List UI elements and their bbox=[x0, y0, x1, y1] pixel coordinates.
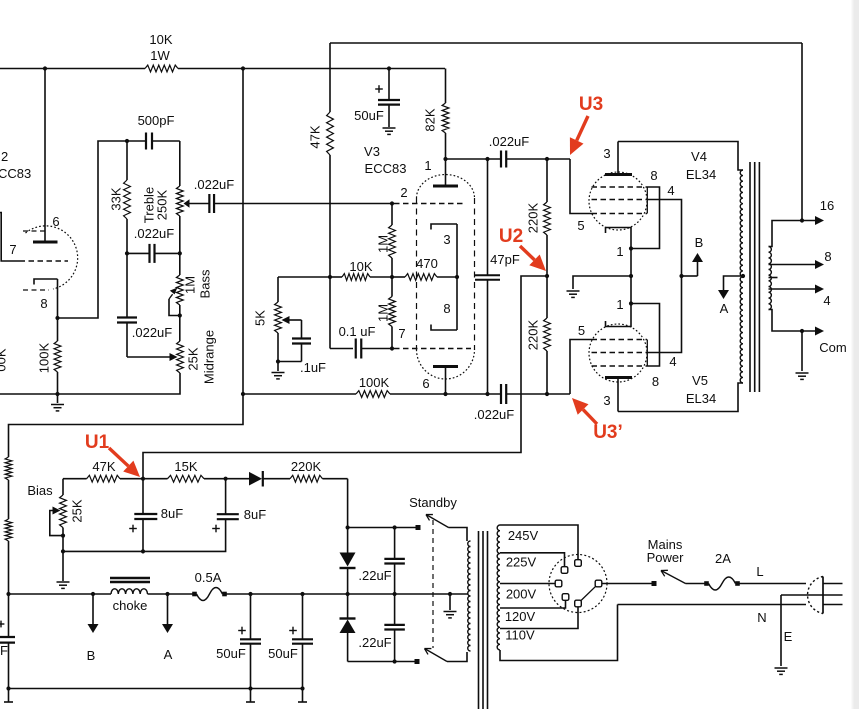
wire Com ground drop bbox=[801, 331, 803, 371]
svg-text:2A: 2A bbox=[715, 551, 731, 566]
label L bbox=[756, 564, 763, 579]
label Standby bbox=[409, 495, 457, 510]
capacitor .1uF (5K bypass) bbox=[292, 320, 311, 362]
fuse 2A bbox=[704, 577, 740, 590]
node OPT center tap bbox=[741, 274, 745, 278]
svg-text:225V: 225V bbox=[506, 555, 537, 570]
label + (50uF second) bbox=[289, 627, 297, 635]
label Com bbox=[819, 340, 846, 355]
label edge cap fragment bbox=[0, 643, 8, 658]
label + (edge cap) bbox=[0, 621, 4, 628]
wire 5K top bbox=[277, 277, 279, 302]
label 8 ohm bbox=[824, 249, 831, 264]
svg-text:220K: 220K bbox=[291, 459, 322, 474]
resistor 10K (V3) bbox=[330, 274, 392, 281]
chassis stub right bbox=[298, 689, 307, 703]
label pin 8 V4 bbox=[650, 168, 657, 183]
label edge fragment 500K bbox=[0, 348, 9, 371]
tube V4 grid cage right edge bbox=[646, 187, 648, 214]
arrow A supply bbox=[718, 289, 729, 299]
label .022uF (treble out) bbox=[194, 177, 235, 192]
wire 47K to U1 node bbox=[120, 478, 143, 480]
standby switch lower contact bbox=[415, 659, 420, 664]
wire pin6 rail left bbox=[243, 393, 356, 395]
tube V5 grid cage right edge bbox=[646, 340, 648, 367]
tube V5 cathode hook bbox=[606, 304, 632, 327]
label pin 2 V3 bbox=[400, 185, 407, 200]
wire bias row left bbox=[63, 478, 87, 480]
chassis stub left bbox=[4, 689, 13, 703]
arrow 4 ohm bbox=[815, 285, 824, 294]
svg-text:47K: 47K bbox=[308, 125, 323, 148]
label pin 5 V5 bbox=[578, 323, 585, 338]
label .022uF upper bbox=[489, 134, 530, 149]
svg-text:10K: 10K bbox=[149, 32, 172, 47]
node screen bus bbox=[679, 274, 683, 278]
node 50uF2 top bbox=[300, 592, 304, 596]
wire bias to tie rail bbox=[62, 536, 64, 552]
label pin 1 V5 bbox=[616, 297, 623, 312]
svg-text:B: B bbox=[87, 648, 96, 663]
node rail left bbox=[6, 592, 10, 596]
wire center tap to A bbox=[724, 276, 744, 289]
wire Com tap bbox=[769, 310, 816, 332]
node 50uF1 top bbox=[248, 592, 252, 596]
label Midrange bbox=[202, 330, 217, 384]
capacitor 50uF second bbox=[292, 594, 313, 689]
ground (earth) bbox=[775, 668, 788, 674]
wire V2 cathode down bbox=[57, 279, 59, 318]
standby gang link (dashed) bbox=[432, 520, 434, 648]
svg-text:.22uF: .22uF bbox=[358, 568, 391, 583]
svg-text:U1: U1 bbox=[85, 432, 110, 453]
wire 245V tap bbox=[500, 525, 578, 560]
svg-text:ECC83: ECC83 bbox=[365, 161, 407, 176]
svg-text:7: 7 bbox=[9, 242, 16, 257]
resistor 47K (feedback) bbox=[327, 112, 334, 155]
svg-text:245V: 245V bbox=[508, 528, 539, 543]
tube V4 grid g1 (dashed) bbox=[592, 213, 648, 215]
label + (50uF first) bbox=[238, 627, 246, 635]
label 1M lower bbox=[376, 304, 391, 322]
label 470 bbox=[416, 256, 438, 271]
svg-text:110V: 110V bbox=[505, 628, 535, 643]
label 25K (midrange) bbox=[186, 347, 201, 370]
tube V3 lower grid (dashed) bbox=[394, 348, 471, 350]
tube V5 grid g1 (dashed) bbox=[592, 339, 648, 341]
wire V5 g3 tie bbox=[631, 304, 660, 367]
svg-text:16: 16 bbox=[820, 198, 834, 213]
ground (50uF) bbox=[383, 128, 396, 134]
node bottom rail 50uF1 bbox=[248, 686, 252, 690]
svg-text:470: 470 bbox=[416, 256, 438, 271]
red label U3 bbox=[579, 94, 603, 115]
svg-text:8: 8 bbox=[652, 374, 659, 389]
label 220K upper bbox=[526, 202, 541, 233]
wire 5K bottom tie bbox=[278, 361, 302, 363]
tube V3 envelope top arc bbox=[417, 175, 475, 198]
svg-text:0.5A: 0.5A bbox=[195, 570, 222, 585]
node standby top node bbox=[346, 525, 350, 529]
label .022uF (bass) bbox=[132, 325, 173, 340]
standby switch lower lever bbox=[425, 649, 448, 662]
ground (Com) bbox=[796, 373, 809, 379]
wire N line bbox=[618, 604, 807, 606]
wire switch to fuse bbox=[686, 583, 707, 585]
PT mains winding bbox=[497, 525, 500, 650]
svg-text:1: 1 bbox=[424, 158, 431, 173]
label 47K (bias) bbox=[92, 459, 115, 474]
label pin 6 of V2 bbox=[52, 214, 59, 229]
svg-text:6: 6 bbox=[52, 214, 59, 229]
label pin 4 V5 bbox=[669, 354, 676, 369]
label Mains bbox=[648, 537, 683, 552]
svg-text:U2: U2 bbox=[499, 226, 523, 247]
node bass wiper tie bbox=[178, 313, 182, 317]
wire pin1 rail bbox=[446, 158, 571, 160]
voltage selector body bbox=[549, 555, 607, 613]
label A supply bbox=[720, 301, 729, 316]
label + (8uF first) bbox=[129, 525, 137, 533]
tube V2 grid (dashed) bbox=[20, 260, 69, 262]
label ECC83 bbox=[365, 161, 407, 176]
mains switch contact bbox=[652, 581, 657, 586]
svg-text:choke: choke bbox=[113, 598, 148, 613]
label A out bbox=[164, 647, 173, 662]
bias wiper arrow bbox=[50, 507, 63, 536]
node 47pF bottom bbox=[485, 392, 489, 396]
potentiometer Midrange 25K bbox=[177, 341, 184, 373]
arrow Com bbox=[815, 327, 824, 336]
node HT center tap ground bbox=[448, 592, 452, 596]
tube V3 upper plate bbox=[433, 159, 458, 186]
svg-text:3: 3 bbox=[603, 146, 610, 161]
svg-text:8: 8 bbox=[824, 249, 831, 264]
svg-text:0.1 uF: 0.1 uF bbox=[339, 324, 376, 339]
node V3 pin6 node bbox=[443, 392, 447, 396]
node mid tone stack left bbox=[125, 251, 129, 255]
label 8uF first bbox=[161, 506, 183, 521]
wire main rail bbox=[9, 593, 469, 595]
label .22uF lower bbox=[358, 635, 391, 650]
node V3 pin2 node bbox=[390, 201, 394, 205]
node V3 pin7 node bbox=[390, 346, 394, 350]
wire V4 g3 tie bbox=[631, 187, 660, 249]
label 47K (feedback) bbox=[308, 125, 323, 148]
wire 225V tap bbox=[500, 553, 565, 567]
tube V4 EL34 envelope bbox=[589, 172, 647, 230]
tube V5 EL34 envelope bbox=[589, 324, 647, 382]
node junction on B+ rail at V3 feed bbox=[241, 66, 245, 70]
wire midrange bottom bbox=[58, 373, 181, 394]
svg-text:50uF: 50uF bbox=[354, 108, 384, 123]
svg-text:8: 8 bbox=[443, 301, 450, 316]
selector rotor bbox=[581, 586, 596, 601]
wire 110V tap bbox=[500, 607, 578, 629]
capacitor .022uF (slope) bbox=[127, 244, 180, 263]
svg-text:A: A bbox=[720, 301, 729, 316]
label E bbox=[784, 629, 793, 644]
arrow B out bbox=[88, 594, 99, 633]
wire 5K feed bbox=[278, 276, 330, 278]
wire V4 plate to OPT bbox=[618, 142, 743, 171]
wire ground stub bbox=[57, 394, 59, 403]
node bias wiper tie bbox=[61, 534, 65, 538]
label pin 3 V3 bbox=[443, 232, 450, 247]
wire to V3 grid pin 2 bbox=[214, 203, 392, 205]
label .1uF bbox=[300, 360, 326, 375]
node feedback node bbox=[328, 275, 332, 279]
svg-text:7: 7 bbox=[398, 326, 405, 341]
wire pin6 rail right bbox=[390, 393, 570, 395]
label Treble bbox=[142, 187, 157, 223]
red label U1 bbox=[85, 432, 110, 453]
svg-text:82K: 82K bbox=[423, 108, 438, 131]
wire 220K drop bbox=[347, 479, 349, 528]
resistor 100K (V2 cathode) bbox=[54, 341, 61, 372]
label 2A bbox=[715, 551, 731, 566]
capacitor 8uF second bbox=[217, 479, 239, 520]
svg-text:Midrange: Midrange bbox=[202, 330, 217, 384]
svg-text:U3’: U3’ bbox=[593, 422, 623, 443]
capacitor 500pF bbox=[127, 133, 180, 150]
resistor 220K upper bbox=[544, 202, 551, 235]
label 200V bbox=[506, 587, 537, 602]
label pin 1 V3 bbox=[424, 158, 431, 173]
resistor dropper upper bbox=[5, 457, 12, 480]
capacitor .022uF (treble out) bbox=[209, 194, 214, 213]
node cathode bus top bbox=[629, 246, 633, 250]
svg-text:V5: V5 bbox=[692, 373, 708, 388]
svg-text:V3: V3 bbox=[364, 144, 380, 159]
wire L line bbox=[738, 583, 807, 585]
svg-text:47pF: 47pF bbox=[490, 252, 520, 267]
label pin 8 V5 bbox=[652, 374, 659, 389]
label 0.5A bbox=[195, 570, 222, 585]
inductor choke bbox=[111, 589, 148, 594]
svg-text:CC83: CC83 bbox=[0, 166, 31, 181]
wire HT bottom line bbox=[348, 661, 415, 663]
tube V4 plate bbox=[605, 142, 632, 175]
wire bias ground stub bbox=[62, 551, 64, 581]
svg-text:50uF: 50uF bbox=[216, 646, 246, 661]
svg-text:5K: 5K bbox=[253, 310, 268, 326]
wire 200V tap bbox=[500, 583, 555, 585]
diode D3 (rectifier lower) bbox=[340, 594, 356, 662]
arrow A out bbox=[162, 594, 173, 633]
svg-text:E: E bbox=[784, 629, 793, 644]
label 250K bbox=[155, 189, 170, 220]
node V3 cathode junction bbox=[455, 275, 459, 279]
resistor 1M upper bbox=[389, 225, 396, 258]
svg-text:8: 8 bbox=[650, 168, 657, 183]
wire standby lower to HT winding bbox=[447, 652, 467, 662]
svg-text:U3: U3 bbox=[579, 94, 603, 115]
OPT core bbox=[750, 162, 759, 392]
node junction on B+ rail at V2 plate bbox=[43, 66, 47, 70]
resistor 82K (V3 plate load) bbox=[442, 69, 449, 160]
label V2 fragment bbox=[1, 149, 8, 164]
selector pin 245V bbox=[575, 560, 582, 567]
wire standby upper to HT winding bbox=[449, 528, 468, 542]
OPT primary winding bbox=[740, 170, 743, 383]
wire 16 ohm tap bbox=[769, 221, 816, 247]
svg-text:5: 5 bbox=[577, 218, 584, 233]
node rect top bbox=[346, 592, 350, 596]
svg-text:120V: 120V bbox=[505, 609, 536, 624]
label pin 7 of V2 bbox=[9, 242, 16, 257]
label Power bbox=[647, 550, 685, 565]
arrow B supply bbox=[692, 253, 703, 276]
svg-text:6: 6 bbox=[422, 376, 429, 391]
node tone stack top bbox=[125, 139, 129, 143]
svg-text:1W: 1W bbox=[150, 48, 170, 63]
label .022uF (slope) bbox=[134, 226, 175, 241]
fuse 0.5A bbox=[192, 588, 227, 601]
wire 220K upper leads bbox=[546, 159, 548, 276]
tube V4 cathode hook bbox=[606, 228, 632, 249]
tube V3 lower plate bbox=[433, 367, 458, 395]
wire 33K bottom bbox=[126, 219, 128, 253]
svg-text:EL34: EL34 bbox=[686, 167, 716, 182]
node bottom rail 50uF2 bbox=[300, 686, 304, 690]
tube V2 (half ECC83) plate bbox=[33, 241, 58, 244]
mains switch lever bbox=[661, 570, 686, 583]
tube V4 grid g3 (dashed) bbox=[592, 186, 648, 188]
wire treble bottom bbox=[179, 216, 181, 253]
wire bass bottom bbox=[179, 305, 181, 341]
wire node down bbox=[329, 277, 331, 349]
svg-text:1: 1 bbox=[616, 297, 623, 312]
label 1M upper bbox=[376, 235, 391, 253]
tube V5 grid g3 (dashed) bbox=[592, 365, 648, 367]
label 225V bbox=[506, 555, 537, 570]
svg-text:25K: 25K bbox=[186, 347, 201, 370]
resistor 15K bbox=[143, 475, 226, 482]
svg-text:F: F bbox=[0, 643, 8, 658]
wire selector to switch bbox=[602, 583, 652, 585]
svg-text:10K: 10K bbox=[349, 259, 372, 274]
label pin 4 V4 bbox=[667, 183, 674, 198]
wire E line bbox=[781, 594, 843, 596]
node U1 node bbox=[141, 477, 145, 481]
svg-text:Standby: Standby bbox=[409, 495, 457, 510]
svg-text:A: A bbox=[164, 647, 173, 662]
mains plug bbox=[808, 577, 843, 614]
5K wiper arrow bbox=[282, 316, 302, 324]
svg-text:47K: 47K bbox=[92, 459, 115, 474]
resistor 220K lower bbox=[544, 318, 551, 351]
selector pin common bbox=[595, 580, 602, 587]
svg-text:1: 1 bbox=[616, 244, 623, 259]
wire V2 plate from rail bbox=[44, 69, 46, 241]
capacitor .022uF (lower coupling) bbox=[501, 384, 506, 404]
ground jog wire bbox=[573, 276, 631, 289]
label 220K (bias) bbox=[291, 459, 322, 474]
resistor 100K (V3 lower plate) bbox=[356, 391, 390, 398]
wire NFB top rail bbox=[330, 42, 802, 44]
capacitor 50uF first bbox=[240, 594, 261, 689]
label pin 3 V4 bbox=[603, 146, 610, 161]
svg-text:.022uF: .022uF bbox=[474, 407, 515, 422]
svg-text:500pF: 500pF bbox=[138, 113, 175, 128]
wire cathode bus bbox=[630, 249, 632, 304]
svg-text:33K: 33K bbox=[109, 187, 124, 210]
svg-text:.022uF: .022uF bbox=[489, 134, 530, 149]
label 1M (bass) bbox=[183, 276, 198, 294]
label V3 bbox=[364, 144, 380, 159]
wire E drop bbox=[780, 595, 782, 666]
wire 0.1uF to grid node bbox=[361, 348, 392, 350]
svg-text:200V: 200V bbox=[506, 587, 537, 602]
wire bias pot top bbox=[62, 479, 64, 495]
svg-text:Bass: Bass bbox=[198, 269, 213, 298]
node ground rail junction bbox=[55, 392, 59, 396]
wire B+ rail (top) bbox=[0, 68, 445, 70]
svg-text:Bias: Bias bbox=[27, 483, 53, 498]
label 1W bbox=[150, 48, 170, 63]
standby switch upper lever bbox=[426, 515, 449, 528]
resistor 10K 1W (plate supply) bbox=[145, 65, 178, 72]
svg-text:.1uF: .1uF bbox=[300, 360, 326, 375]
wire V3 lower B+ column bbox=[242, 69, 244, 395]
svg-text:V4: V4 bbox=[691, 149, 707, 164]
label V5 bbox=[692, 373, 708, 388]
node Com ground tap bbox=[800, 329, 804, 333]
resistor 470 (V3 cathode) bbox=[392, 274, 457, 281]
label 47pF bbox=[490, 252, 520, 267]
svg-text:100K: 100K bbox=[37, 342, 52, 373]
svg-text:220K: 220K bbox=[526, 319, 541, 350]
wire mains winding bottom bbox=[500, 605, 618, 661]
ground (HT center) bbox=[444, 612, 457, 618]
svg-text:1M: 1M bbox=[183, 276, 198, 294]
capacitor .22uF lower bbox=[384, 594, 405, 662]
node V2 cathode junction bbox=[55, 316, 59, 320]
standby switch upper contact bbox=[416, 525, 421, 530]
wire 5K bottom bbox=[277, 333, 279, 362]
potentiometer Bias 25K bbox=[60, 495, 67, 528]
wire screen bus to B bbox=[682, 275, 698, 277]
node V3 grid bias node bbox=[390, 275, 394, 279]
svg-text:.022uF: .022uF bbox=[132, 325, 173, 340]
node A takeoff bbox=[165, 592, 169, 596]
wire to 0.1uF bbox=[330, 348, 353, 350]
svg-text:B: B bbox=[695, 235, 704, 250]
label pin 7 V3 bbox=[398, 326, 405, 341]
red label U3' bbox=[593, 422, 623, 443]
node .22uF mid bbox=[393, 592, 397, 596]
svg-text:2: 2 bbox=[400, 185, 407, 200]
svg-text:25K: 25K bbox=[70, 499, 85, 522]
svg-text:1M: 1M bbox=[376, 304, 391, 322]
ground (PI cathodes) bbox=[567, 291, 580, 297]
bass wiper arrow bbox=[169, 288, 180, 316]
potentiometer Bass 1M bbox=[176, 275, 183, 305]
svg-text:5: 5 bbox=[578, 323, 585, 338]
label .22uF upper bbox=[358, 568, 391, 583]
node 47pF top bbox=[485, 157, 489, 161]
wire lower grid rise bbox=[570, 340, 592, 395]
wire upper grid drop bbox=[570, 159, 592, 214]
label 50uF second bbox=[268, 646, 298, 661]
label 100K (V3) bbox=[359, 375, 390, 390]
label 15K bbox=[174, 459, 197, 474]
label pin 3 V5 bbox=[603, 393, 610, 408]
wire bias pot bottom bbox=[62, 528, 64, 536]
svg-text:3: 3 bbox=[443, 232, 450, 247]
label 10K bbox=[149, 32, 172, 47]
